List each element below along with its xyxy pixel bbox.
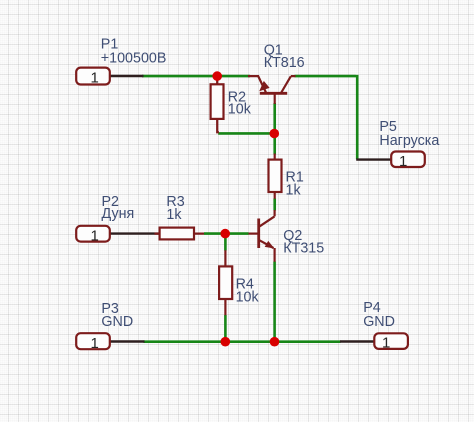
svg-text:10k: 10k: [236, 289, 260, 305]
wire R4 bottom to ground bus: [224, 315, 227, 342]
junction node at P1/R2: [212, 71, 222, 81]
resistor R1: [269, 154, 282, 199]
pin line P3: [110, 340, 145, 342]
wire R3 to Q2 base: [204, 232, 249, 235]
svg-text:1k: 1k: [166, 207, 182, 223]
junction node Q2 emitter / ground bus: [270, 337, 280, 347]
pin line P2 to R3: [110, 232, 161, 234]
pin P4: [374, 333, 408, 349]
svg-text:1: 1: [382, 335, 390, 352]
wire R2 bottom to base node: [218, 132, 271, 135]
junction node R4 / ground bus: [221, 337, 231, 347]
svg-text:Дуня: Дуня: [102, 206, 135, 222]
junction node Q1 base / R2 / R1: [270, 129, 280, 139]
wire R1 bottom to Q2 collector: [273, 199, 276, 211]
wire Q1 base down to node: [273, 103, 276, 132]
svg-text:1: 1: [91, 227, 99, 244]
svg-text:1: 1: [399, 153, 407, 170]
wire node to R1 top: [273, 135, 276, 155]
wire Q1 collector to P5 corner: [295, 75, 358, 159]
svg-text:1: 1: [91, 70, 99, 87]
junction node Q2 base / R3 / R4: [220, 229, 230, 239]
svg-text:КТ816: КТ816: [264, 55, 305, 71]
resistor R2: [211, 76, 224, 133]
svg-text:Нагруска: Нагруска: [379, 133, 439, 149]
wire Q2 emitter down to ground bus: [273, 262, 276, 342]
pin line P1: [110, 75, 144, 77]
pin P2: [76, 226, 110, 242]
transistor Q2 (NPN KT315): [249, 210, 275, 262]
pin line P4: [340, 340, 375, 342]
wire ground bus P3 to P4: [144, 340, 341, 343]
svg-text:10k: 10k: [228, 102, 252, 118]
svg-text:КТ315: КТ315: [283, 240, 324, 256]
transistor Q1 (PNP KT816): [248, 76, 296, 104]
pin P5: [391, 152, 425, 168]
svg-text:GND: GND: [363, 314, 395, 330]
wire P1 to Q1 emitter: [142, 75, 250, 78]
svg-text:1k: 1k: [286, 183, 302, 199]
svg-text:GND: GND: [101, 314, 133, 330]
pin line P5: [356, 158, 391, 160]
wire base node to R4 top: [224, 236, 227, 251]
resistor R4: [219, 250, 232, 315]
pin P1: [76, 68, 110, 85]
svg-text:+100500В: +100500В: [101, 51, 167, 67]
resistor R3: [155, 228, 205, 240]
svg-text:1: 1: [91, 335, 99, 352]
pin P3: [76, 333, 110, 349]
